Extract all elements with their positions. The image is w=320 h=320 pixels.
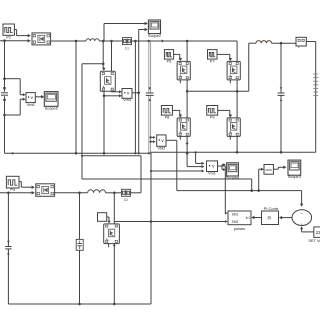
node loop top (3, 77, 6, 80)
wire AC bus (5, 152, 316, 153)
wire left branch down (81, 64, 83, 179)
svg-text:RMS: RMS (265, 168, 271, 172)
wire P2 to IGBT1 gate (14, 30, 30, 38)
wire rail into UL collector (186, 41, 188, 61)
wire Vm6 loop top (5, 79, 26, 97)
node ac6 (186, 152, 189, 155)
svg-text:D2: D2 (124, 198, 128, 202)
svg-text:Vm1: Vm1 (208, 172, 216, 176)
wire L2 to D2 (106, 192, 122, 195)
wire UR m stub (229, 80, 231, 83)
wire VM2 stub1 (150, 136, 156, 139)
wire P4 to IGBT4 (19, 182, 35, 189)
wire to Vm4 in2 (104, 94, 122, 97)
voltage measurement Vm6 (26, 93, 35, 107)
IGBT leg lower-right (227, 118, 240, 136)
wire bottom rail (8, 303, 151, 306)
wire P9 to gate (218, 110, 232, 117)
svg-text:Vm4: Vm4 (123, 98, 131, 102)
scope Scope6 (44, 92, 58, 111)
wire bus to Vm1 in3 (150, 169, 205, 172)
svg-text:Scope3: Scope3 (288, 174, 301, 179)
node rail-left drop (3, 39, 6, 42)
wire AC to Vm1 in1 (196, 152, 205, 165)
pulse generator P9 (207, 106, 218, 120)
node ac4 (134, 152, 140, 154)
svg-text:VM2: VM2 (157, 147, 165, 151)
wire J1 down (75, 41, 77, 153)
voltage measurement Vm1 (207, 161, 218, 176)
node ac1 (11, 152, 13, 154)
wire UL emitter to mid bus (186, 80, 188, 118)
wire rail to IGBT3 gate (102, 41, 106, 71)
svg-text:220: 220 (316, 230, 320, 235)
node loop bottom (3, 114, 6, 117)
pulse generator P4 (6, 176, 19, 192)
load RLC ticks (313, 74, 318, 96)
inductor L2 (88, 190, 106, 193)
wire PI to pulses In1 (251, 216, 261, 220)
voltage measurement Vm4 (122, 89, 132, 103)
IGBT leg upper-left (177, 61, 190, 80)
svg-text:SM1: SM1 (232, 213, 239, 217)
wire DC return up (150, 152, 152, 304)
wire VM2 out down (166, 140, 177, 190)
measurement block top-right (296, 37, 306, 48)
svg-text:P6: P6 (167, 59, 172, 63)
diode D2 (122, 189, 131, 202)
wire VM2 stub2 (150, 140, 156, 143)
wire LR m stub (229, 136, 231, 139)
svg-text:P8: P8 (165, 115, 170, 119)
wire IGBT1 output rail (51, 40, 86, 42)
svg-text:pulses: pulses (234, 226, 245, 231)
wire left cap branch (7, 193, 9, 304)
wire sum to PI (279, 216, 292, 220)
wire SM2 line (114, 220, 227, 223)
IGBT1 (32, 33, 51, 45)
wire gate branch left (82, 63, 103, 65)
node ac8 (236, 151, 239, 154)
label PI Contr (264, 206, 279, 211)
node J1 (75, 40, 78, 43)
pulse generator P7 (208, 50, 218, 64)
wire mid cap branch (79, 193, 81, 304)
wire IGBT4 out (55, 192, 88, 195)
pulse generator P6 (164, 50, 173, 64)
wire Vm6 to Scope6 (35, 95, 44, 99)
wire 220 to sum (300, 226, 314, 232)
wire DC rail left into IGBT1 (0, 39, 31, 43)
scope Scope3 (288, 160, 301, 179)
wire D2 to corner up (131, 192, 142, 194)
svg-text:P9: P9 (210, 115, 215, 119)
capacitor C1 (1, 87, 8, 101)
label SET (308, 238, 320, 243)
wire IGBT5 m stub (108, 244, 110, 248)
wire rail drop A (134, 41, 136, 153)
svg-text:P7: P7 (210, 59, 215, 63)
voltage measurement VM2 (157, 135, 166, 151)
capacitor C3 on DC bus (146, 87, 154, 101)
node C1 top (3, 87, 6, 90)
wire feedback upper (82, 178, 252, 180)
svg-text:P4: P4 (10, 188, 15, 192)
wire feedback jog (251, 179, 253, 191)
PI controller (262, 211, 279, 225)
wire DC bus negative (150, 41, 152, 153)
svg-text:SM2: SM2 (232, 220, 239, 224)
IGBT leg upper-right (227, 61, 240, 80)
scope Scope2 (148, 20, 161, 38)
wire LL m stub (179, 136, 181, 139)
gate source block (98, 213, 107, 222)
IGBT5 (104, 224, 120, 244)
wire Vm4 out (132, 92, 139, 94)
wire P8 to gate (172, 110, 182, 117)
node ac5 (148, 152, 150, 154)
scope Scope4 (226, 163, 240, 180)
svg-text:Vm6: Vm6 (27, 103, 35, 107)
svg-text:SET Val: SET Val (308, 238, 320, 243)
wire DC left vertical (4, 41, 6, 154)
inductor L1 (86, 39, 99, 41)
sum junction (292, 210, 312, 227)
wire IGBT5 emitter down (113, 244, 115, 304)
pulses subsystem (228, 211, 251, 231)
node ac7 (195, 151, 197, 153)
capacitor C4 branch wire (280, 43, 282, 152)
svg-text:PI Contr: PI Contr (264, 206, 279, 211)
capacitor block C6 (76, 239, 83, 250)
wire UR emitter to mid bus (236, 80, 238, 118)
wire Vm1 to SM1 (222, 166, 228, 215)
wire feedback to RMS (257, 168, 263, 192)
svg-text:Scope2: Scope2 (148, 33, 161, 38)
node ac10 (280, 151, 283, 154)
wire P7 to gate (217, 54, 232, 61)
IGBT leg lower-left (177, 118, 190, 136)
wire DC bus positive (148, 41, 150, 153)
wire LR emitter down (236, 136, 238, 152)
wire P6 to gate (174, 54, 182, 61)
capacitor C4 (278, 87, 285, 101)
wire to IGBT5 collector (113, 193, 115, 224)
wire Vm6 loop bottom (5, 98, 26, 115)
svg-text:+: + (301, 222, 303, 226)
wire rail to Scope2 in1 (104, 22, 148, 41)
wire RMS to Scope3 (273, 166, 286, 170)
wire rail D1 to bridge (132, 39, 238, 42)
node C1 bottom (3, 99, 6, 102)
inductor L3 (256, 41, 272, 44)
wire mid bus up (249, 43, 256, 91)
svg-text:In1: In1 (246, 216, 251, 220)
wire mid bus (186, 90, 249, 93)
wire loop B (81, 155, 141, 193)
RMS block (264, 165, 273, 175)
constant block 220 (314, 227, 320, 238)
pulse generator P2 (3, 24, 14, 40)
svg-text:PI: PI (268, 216, 272, 221)
wire IGBT3 to Vm4 in1 (111, 90, 122, 93)
wire feedback lower (177, 189, 302, 192)
wire rail to IGBT3 collector (111, 41, 113, 71)
svg-text:+: + (301, 211, 303, 215)
diode D1 (123, 38, 132, 51)
IGBT4 (36, 184, 55, 197)
wire UL m stub (179, 80, 181, 83)
wire rail drop B (137, 30, 140, 154)
wire to Scope2 in2 (139, 28, 148, 32)
wire IGBT3 emitter down (103, 91, 106, 153)
wire LL emitter down (186, 136, 189, 153)
capacitor C5 (5, 241, 11, 255)
node ac2 (75, 152, 78, 155)
svg-text:P2: P2 (6, 36, 11, 40)
svg-text:Scope6: Scope6 (45, 106, 58, 111)
wire into sum top (300, 191, 304, 207)
node ac3 (103, 152, 106, 155)
svg-text:D1: D1 (125, 46, 129, 50)
node lower-left drop (7, 192, 10, 195)
pulse generator P8 (161, 106, 172, 120)
wire bridge to Vm1 in2 (187, 153, 204, 168)
wire rail corner into UR collector (236, 41, 238, 61)
IGBT3 (100, 71, 115, 91)
wire rail L1 to diode D1 (99, 40, 122, 43)
wire to block (272, 42, 296, 45)
wire block to load (306, 42, 315, 153)
wire Vm1 out split (218, 163, 226, 171)
wire gate to IGBT5 (107, 217, 111, 224)
wire lower rail left (0, 191, 35, 195)
